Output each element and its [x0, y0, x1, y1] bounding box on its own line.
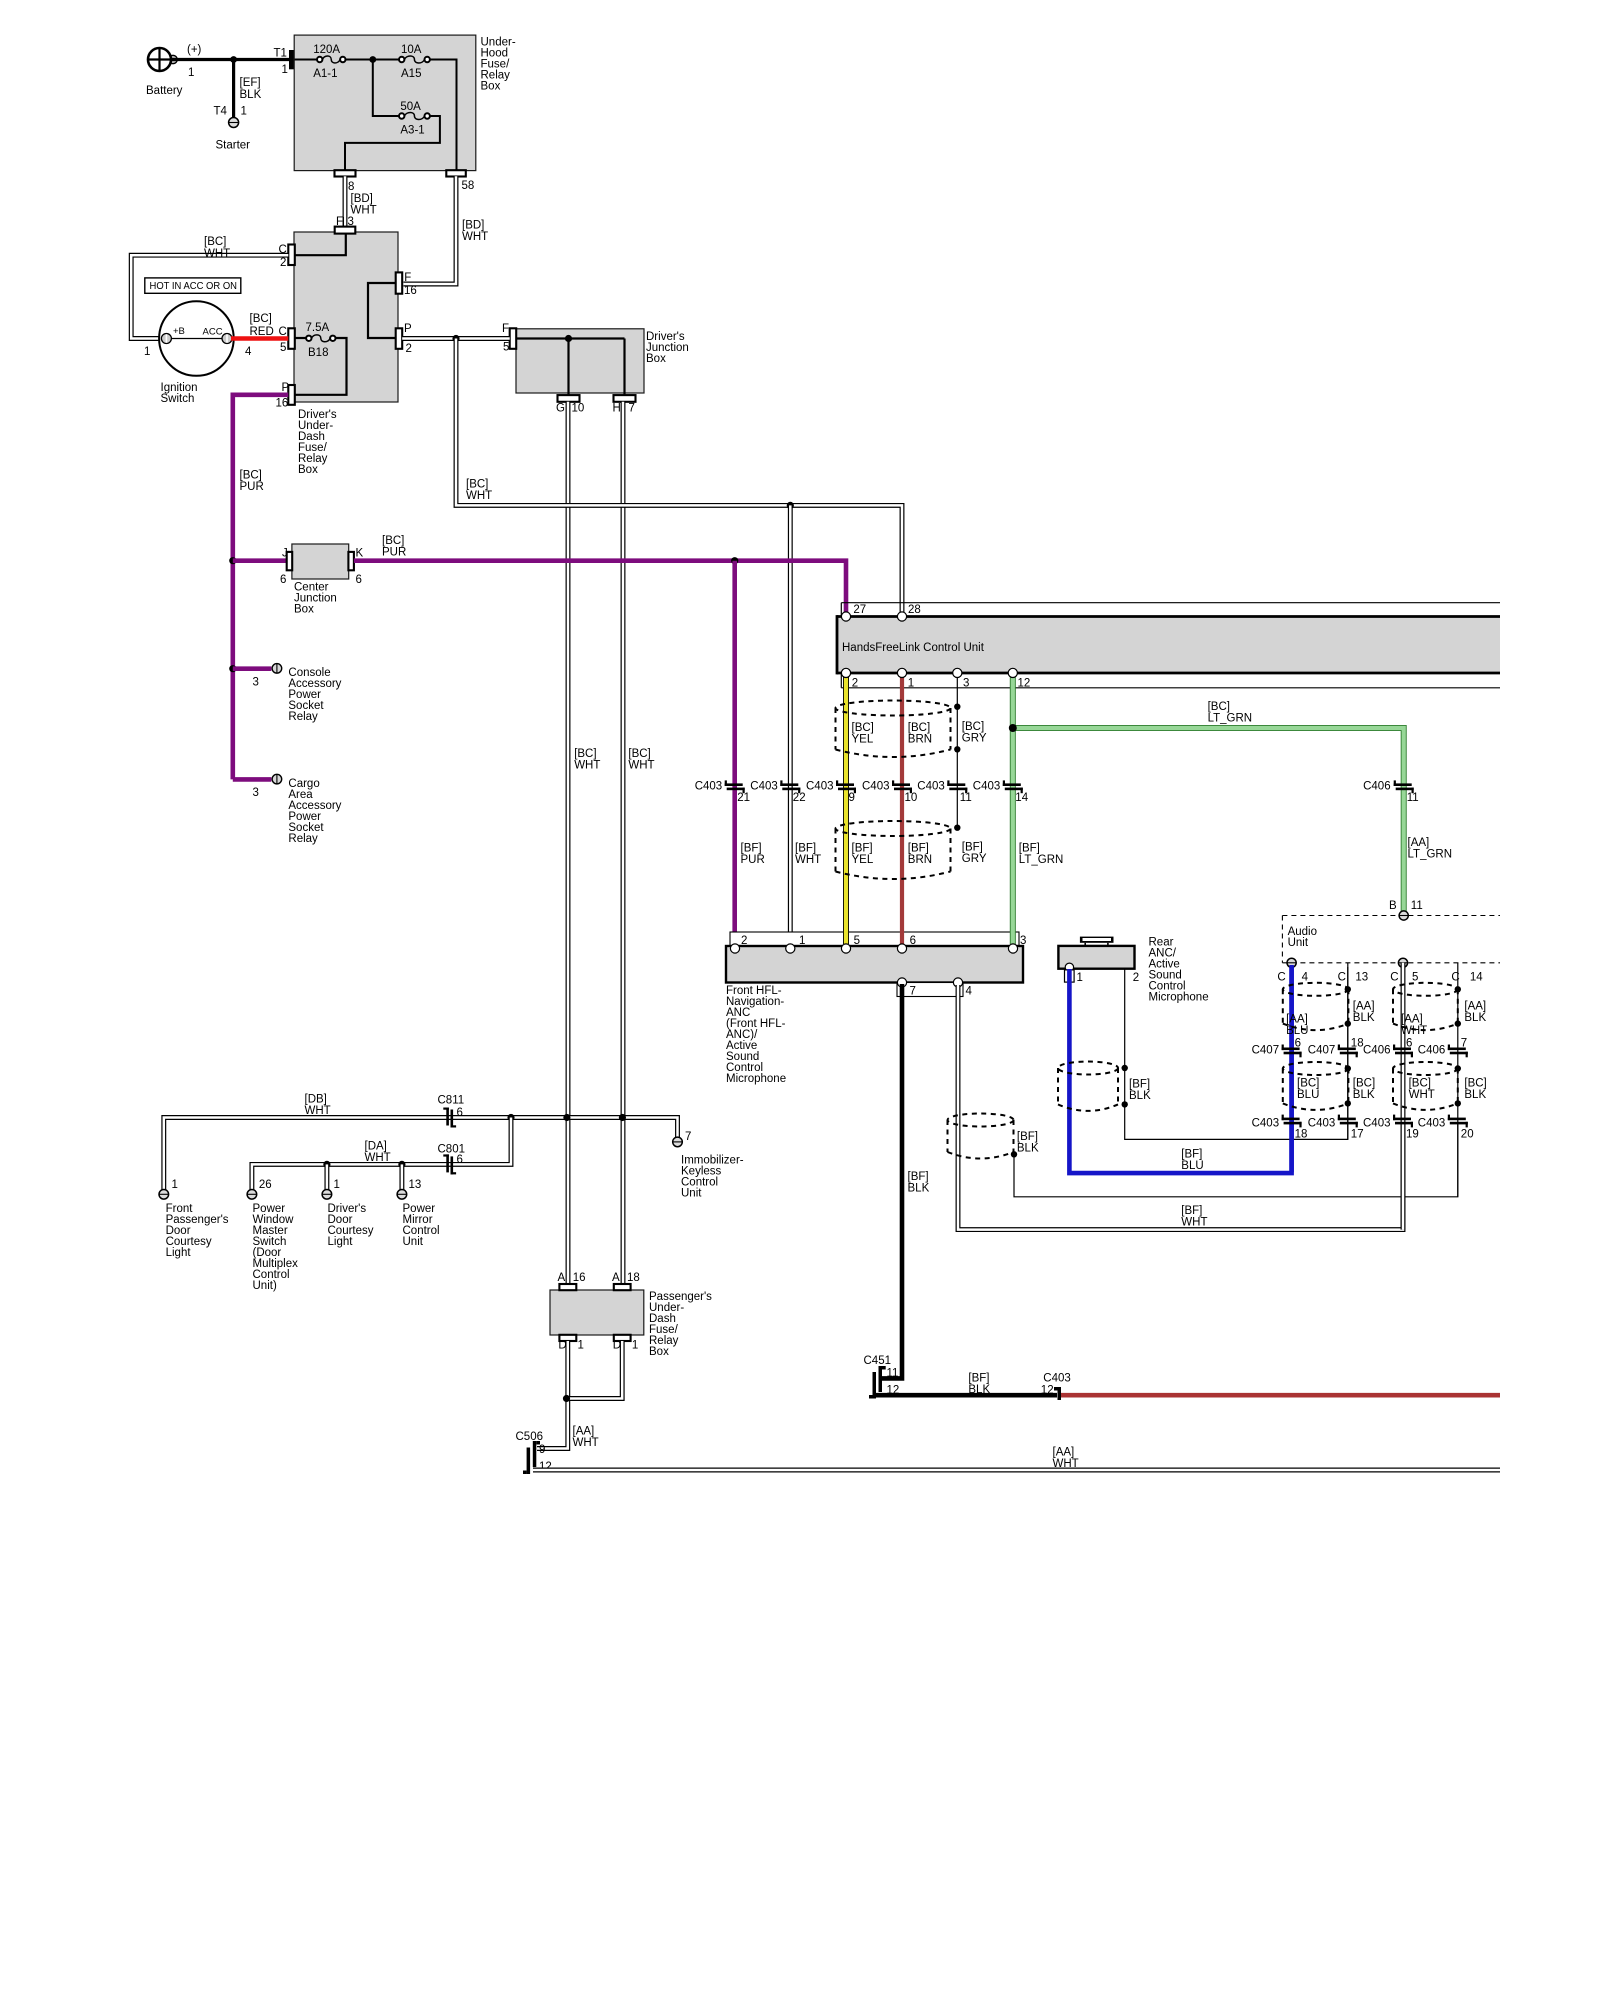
svg-text:4: 4	[966, 986, 973, 998]
svg-text:PUR: PUR	[382, 547, 406, 559]
svg-text:C406: C406	[1363, 781, 1391, 793]
svg-text:C403: C403	[917, 781, 945, 793]
svg-text:BRN: BRN	[908, 734, 932, 746]
svg-text:BLU: BLU	[1286, 1025, 1308, 1037]
svg-text:J: J	[282, 548, 288, 560]
svg-text:7: 7	[910, 986, 916, 998]
svg-text:[BC]: [BC]	[204, 236, 226, 248]
svg-text:C407: C407	[1308, 1045, 1336, 1057]
svg-text:[BF]: [BF]	[968, 1373, 989, 1385]
svg-text:[BD]: [BD]	[462, 220, 484, 232]
svg-text:[BC]: [BC]	[240, 470, 262, 482]
svg-text:BLK: BLK	[1353, 1089, 1375, 1101]
svg-text:C: C	[1390, 972, 1398, 984]
svg-text:[BF]: [BF]	[852, 843, 873, 855]
svg-text:C403: C403	[1043, 1373, 1071, 1385]
svg-text:WHT: WHT	[574, 760, 600, 772]
svg-text:18: 18	[1351, 1038, 1364, 1050]
svg-text:16: 16	[573, 1272, 586, 1284]
svg-text:C811: C811	[438, 1095, 465, 1107]
svg-text:[BF]: [BF]	[1129, 1079, 1150, 1091]
svg-text:2: 2	[406, 343, 412, 355]
svg-text:BRN: BRN	[908, 854, 932, 866]
svg-text:C403: C403	[695, 781, 723, 793]
svg-text:WHT: WHT	[573, 1437, 599, 1449]
svg-text:[BC]: [BC]	[574, 748, 596, 760]
svg-text:5: 5	[854, 935, 860, 947]
svg-text:A: A	[612, 1272, 620, 1284]
svg-text:WHT: WHT	[351, 205, 377, 217]
svg-text:C403: C403	[1252, 1118, 1280, 1130]
svg-text:HandsFreeLink Control Unit: HandsFreeLink Control Unit	[842, 642, 985, 654]
svg-text:B: B	[1389, 900, 1397, 912]
svg-text:Box: Box	[649, 1346, 669, 1358]
svg-text:[BC]: [BC]	[962, 721, 984, 733]
svg-text:2: 2	[280, 257, 286, 269]
svg-text:K: K	[356, 548, 364, 560]
svg-text:28: 28	[908, 604, 921, 616]
svg-text:GRY: GRY	[962, 733, 987, 745]
svg-text:1: 1	[144, 346, 150, 358]
svg-text:BLK: BLK	[1464, 1012, 1486, 1024]
svg-text:13: 13	[1355, 972, 1368, 984]
svg-text:3: 3	[253, 677, 259, 689]
svg-text:[BF]: [BF]	[1181, 1205, 1202, 1217]
svg-text:P: P	[404, 323, 412, 335]
svg-text:BLK: BLK	[1464, 1089, 1486, 1101]
svg-text:11: 11	[887, 1368, 899, 1380]
svg-text:6: 6	[280, 574, 286, 586]
svg-text:Light: Light	[166, 1247, 192, 1259]
svg-text:T4: T4	[214, 106, 228, 118]
svg-text:12: 12	[1041, 1385, 1054, 1397]
svg-text:10: 10	[572, 403, 585, 415]
svg-text:WHT: WHT	[1053, 1458, 1079, 1470]
svg-text:H: H	[613, 403, 621, 415]
svg-text:[BC]: [BC]	[250, 313, 272, 325]
svg-text:[BC]: [BC]	[1464, 1078, 1486, 1090]
svg-text:19: 19	[1406, 1129, 1419, 1141]
svg-text:ACC: ACC	[203, 327, 223, 338]
svg-text:[BF]: [BF]	[795, 843, 816, 855]
svg-text:10: 10	[905, 792, 918, 804]
svg-text:G: G	[556, 403, 565, 415]
svg-text:RED: RED	[250, 326, 274, 338]
svg-text:Unit): Unit)	[253, 1280, 277, 1292]
svg-text:C407: C407	[1252, 1045, 1280, 1057]
svg-text:7.5A: 7.5A	[306, 322, 330, 334]
svg-text:Switch: Switch	[161, 393, 195, 405]
svg-text:17: 17	[1351, 1129, 1364, 1141]
svg-text:6: 6	[457, 1107, 463, 1119]
svg-text:HOT IN ACC OR ON: HOT IN ACC OR ON	[150, 281, 238, 292]
svg-text:C403: C403	[1308, 1118, 1336, 1130]
svg-text:[BF]: [BF]	[908, 1171, 929, 1183]
svg-text:WHT: WHT	[305, 1105, 331, 1117]
svg-text:C: C	[1451, 972, 1459, 984]
svg-text:9: 9	[849, 792, 855, 804]
svg-text:Box: Box	[481, 81, 501, 93]
svg-text:20: 20	[1461, 1129, 1474, 1141]
svg-text:8: 8	[348, 181, 354, 193]
svg-text:[BF]: [BF]	[908, 843, 929, 855]
svg-text:LT_GRN: LT_GRN	[1019, 854, 1064, 866]
svg-text:[DB]: [DB]	[305, 1094, 327, 1106]
svg-text:5: 5	[280, 342, 286, 354]
svg-text:P: P	[282, 382, 290, 394]
svg-text:18: 18	[627, 1272, 640, 1284]
svg-text:C403: C403	[1363, 1118, 1391, 1130]
svg-text:5: 5	[503, 342, 509, 354]
svg-text:27: 27	[853, 604, 866, 616]
svg-text:58: 58	[462, 180, 475, 192]
svg-text:14: 14	[1470, 972, 1483, 984]
svg-text:Box: Box	[298, 464, 318, 476]
svg-text:[DA]: [DA]	[365, 1141, 387, 1153]
svg-text:Battery: Battery	[146, 85, 183, 97]
svg-text:A: A	[558, 1272, 566, 1284]
svg-text:BLK: BLK	[1353, 1012, 1375, 1024]
svg-text:13: 13	[409, 1179, 422, 1191]
svg-text:120A: 120A	[313, 44, 340, 56]
svg-text:C403: C403	[862, 781, 890, 793]
svg-text:Box: Box	[646, 353, 666, 365]
svg-text:2: 2	[852, 678, 858, 690]
svg-text:6: 6	[1295, 1038, 1301, 1050]
svg-text:2: 2	[741, 935, 747, 947]
svg-text:C403: C403	[750, 781, 778, 793]
svg-text:[BC]: [BC]	[466, 479, 488, 491]
svg-text:WHT: WHT	[365, 1152, 391, 1164]
svg-text:A15: A15	[401, 68, 421, 80]
svg-text:21: 21	[737, 792, 750, 804]
svg-text:C406: C406	[1418, 1045, 1446, 1057]
svg-text:Unit: Unit	[681, 1188, 702, 1200]
svg-text:10A: 10A	[401, 44, 422, 56]
svg-text:WHT: WHT	[628, 760, 654, 772]
svg-text:3: 3	[253, 787, 259, 799]
svg-text:11: 11	[1407, 792, 1419, 804]
svg-text:F: F	[404, 272, 411, 284]
svg-text:[BF]: [BF]	[1017, 1131, 1038, 1143]
svg-text:1: 1	[632, 1340, 638, 1352]
svg-text:1: 1	[241, 106, 247, 118]
svg-text:WHT: WHT	[1401, 1025, 1427, 1037]
svg-text:[BC]: [BC]	[1353, 1078, 1375, 1090]
svg-text:A3-1: A3-1	[400, 125, 424, 137]
svg-text:C403: C403	[1418, 1118, 1446, 1130]
svg-text:LT_GRN: LT_GRN	[1208, 713, 1253, 725]
svg-text:Box: Box	[294, 604, 314, 616]
svg-text:Unit: Unit	[403, 1236, 424, 1248]
svg-text:[BF]: [BF]	[962, 842, 983, 854]
svg-text:BLK: BLK	[1017, 1143, 1039, 1155]
svg-text:6: 6	[1406, 1038, 1412, 1050]
svg-text:[BD]: [BD]	[351, 193, 373, 205]
svg-text:WHT: WHT	[1409, 1089, 1435, 1101]
svg-text:Microphone: Microphone	[726, 1073, 786, 1085]
svg-text:BLK: BLK	[968, 1384, 990, 1396]
svg-text:22: 22	[793, 792, 806, 804]
svg-text:WHT: WHT	[795, 854, 821, 866]
svg-text:1: 1	[1077, 972, 1083, 984]
svg-text:11: 11	[960, 792, 972, 804]
svg-text:Relay: Relay	[288, 833, 318, 845]
svg-text:3: 3	[1020, 935, 1026, 947]
svg-text:C403: C403	[806, 781, 834, 793]
svg-text:PUR: PUR	[240, 481, 264, 493]
svg-text:1: 1	[799, 935, 805, 947]
svg-text:[AA]: [AA]	[1464, 1001, 1486, 1013]
svg-text:16: 16	[404, 285, 417, 297]
svg-text:[EF]: [EF]	[240, 77, 261, 89]
svg-text:[AA]: [AA]	[1353, 1001, 1375, 1013]
svg-text:BLK: BLK	[908, 1183, 930, 1195]
svg-text:7: 7	[1461, 1038, 1467, 1050]
svg-text:BLU: BLU	[1297, 1089, 1319, 1101]
svg-text:1: 1	[172, 1179, 178, 1191]
svg-text:1: 1	[188, 67, 194, 79]
svg-text:6: 6	[356, 574, 362, 586]
svg-text:Relay: Relay	[288, 711, 318, 723]
svg-text:T1: T1	[274, 48, 287, 60]
svg-text:7: 7	[685, 1131, 691, 1143]
svg-text:(+): (+)	[187, 44, 202, 56]
svg-text:C: C	[1277, 972, 1285, 984]
svg-text:+B: +B	[173, 326, 185, 337]
svg-text:1: 1	[282, 64, 288, 76]
svg-text:PUR: PUR	[741, 854, 765, 866]
svg-text:18: 18	[1295, 1129, 1308, 1141]
svg-text:[BC]: [BC]	[1208, 701, 1230, 713]
svg-text:[AA]: [AA]	[1408, 837, 1430, 849]
svg-text:[AA]: [AA]	[1401, 1014, 1423, 1026]
svg-text:C403: C403	[973, 781, 1001, 793]
svg-text:1: 1	[908, 678, 914, 690]
svg-text:6: 6	[457, 1154, 463, 1166]
svg-text:26: 26	[259, 1179, 272, 1191]
svg-text:50A: 50A	[400, 101, 421, 113]
svg-text:Starter: Starter	[216, 140, 251, 152]
svg-text:4: 4	[245, 346, 252, 358]
svg-text:14: 14	[1015, 792, 1028, 804]
svg-text:Microphone: Microphone	[1149, 992, 1209, 1004]
svg-text:WHT: WHT	[204, 248, 230, 260]
svg-text:[AA]: [AA]	[573, 1426, 595, 1438]
svg-text:11: 11	[1411, 900, 1423, 912]
svg-text:1: 1	[578, 1340, 584, 1352]
svg-text:BLK: BLK	[1129, 1090, 1151, 1102]
svg-text:[BF]: [BF]	[1181, 1149, 1202, 1161]
svg-text:6: 6	[910, 935, 916, 947]
svg-text:12: 12	[1018, 678, 1031, 690]
svg-text:YEL: YEL	[852, 734, 874, 746]
svg-text:BLU: BLU	[1181, 1160, 1203, 1172]
svg-text:WHT: WHT	[1181, 1217, 1207, 1229]
svg-text:2: 2	[1133, 972, 1139, 984]
svg-text:16: 16	[276, 398, 289, 410]
svg-text:[BC]: [BC]	[1297, 1078, 1319, 1090]
svg-text:[AA]: [AA]	[1053, 1447, 1075, 1459]
svg-text:[BF]: [BF]	[741, 843, 762, 855]
svg-text:[BC]: [BC]	[1409, 1078, 1431, 1090]
svg-text:[BF]: [BF]	[1019, 843, 1040, 855]
svg-text:3: 3	[963, 678, 969, 690]
svg-text:5: 5	[1412, 972, 1418, 984]
svg-text:[BC]: [BC]	[382, 535, 404, 547]
svg-text:[BC]: [BC]	[628, 748, 650, 760]
svg-text:B18: B18	[308, 347, 328, 359]
svg-text:GRY: GRY	[962, 853, 987, 865]
svg-text:C506: C506	[516, 1431, 544, 1443]
svg-text:1: 1	[334, 1179, 340, 1191]
svg-text:C406: C406	[1363, 1045, 1391, 1057]
svg-text:YEL: YEL	[852, 854, 874, 866]
svg-text:WHT: WHT	[462, 231, 488, 243]
svg-text:[AA]: [AA]	[1286, 1014, 1308, 1026]
svg-text:Unit: Unit	[1288, 937, 1309, 949]
svg-text:Light: Light	[328, 1236, 354, 1248]
svg-text:[BC]: [BC]	[908, 722, 930, 734]
svg-text:7: 7	[629, 403, 635, 415]
svg-text:F: F	[502, 323, 509, 335]
svg-text:4: 4	[1302, 972, 1309, 984]
svg-text:9: 9	[539, 1444, 545, 1456]
svg-text:A1-1: A1-1	[313, 68, 337, 80]
svg-text:LT_GRN: LT_GRN	[1408, 849, 1453, 861]
svg-text:[BC]: [BC]	[852, 722, 874, 734]
svg-text:C: C	[1338, 972, 1346, 984]
svg-text:C451: C451	[864, 1355, 892, 1367]
svg-text:BLK: BLK	[240, 89, 262, 101]
svg-text:WHT: WHT	[466, 490, 492, 502]
